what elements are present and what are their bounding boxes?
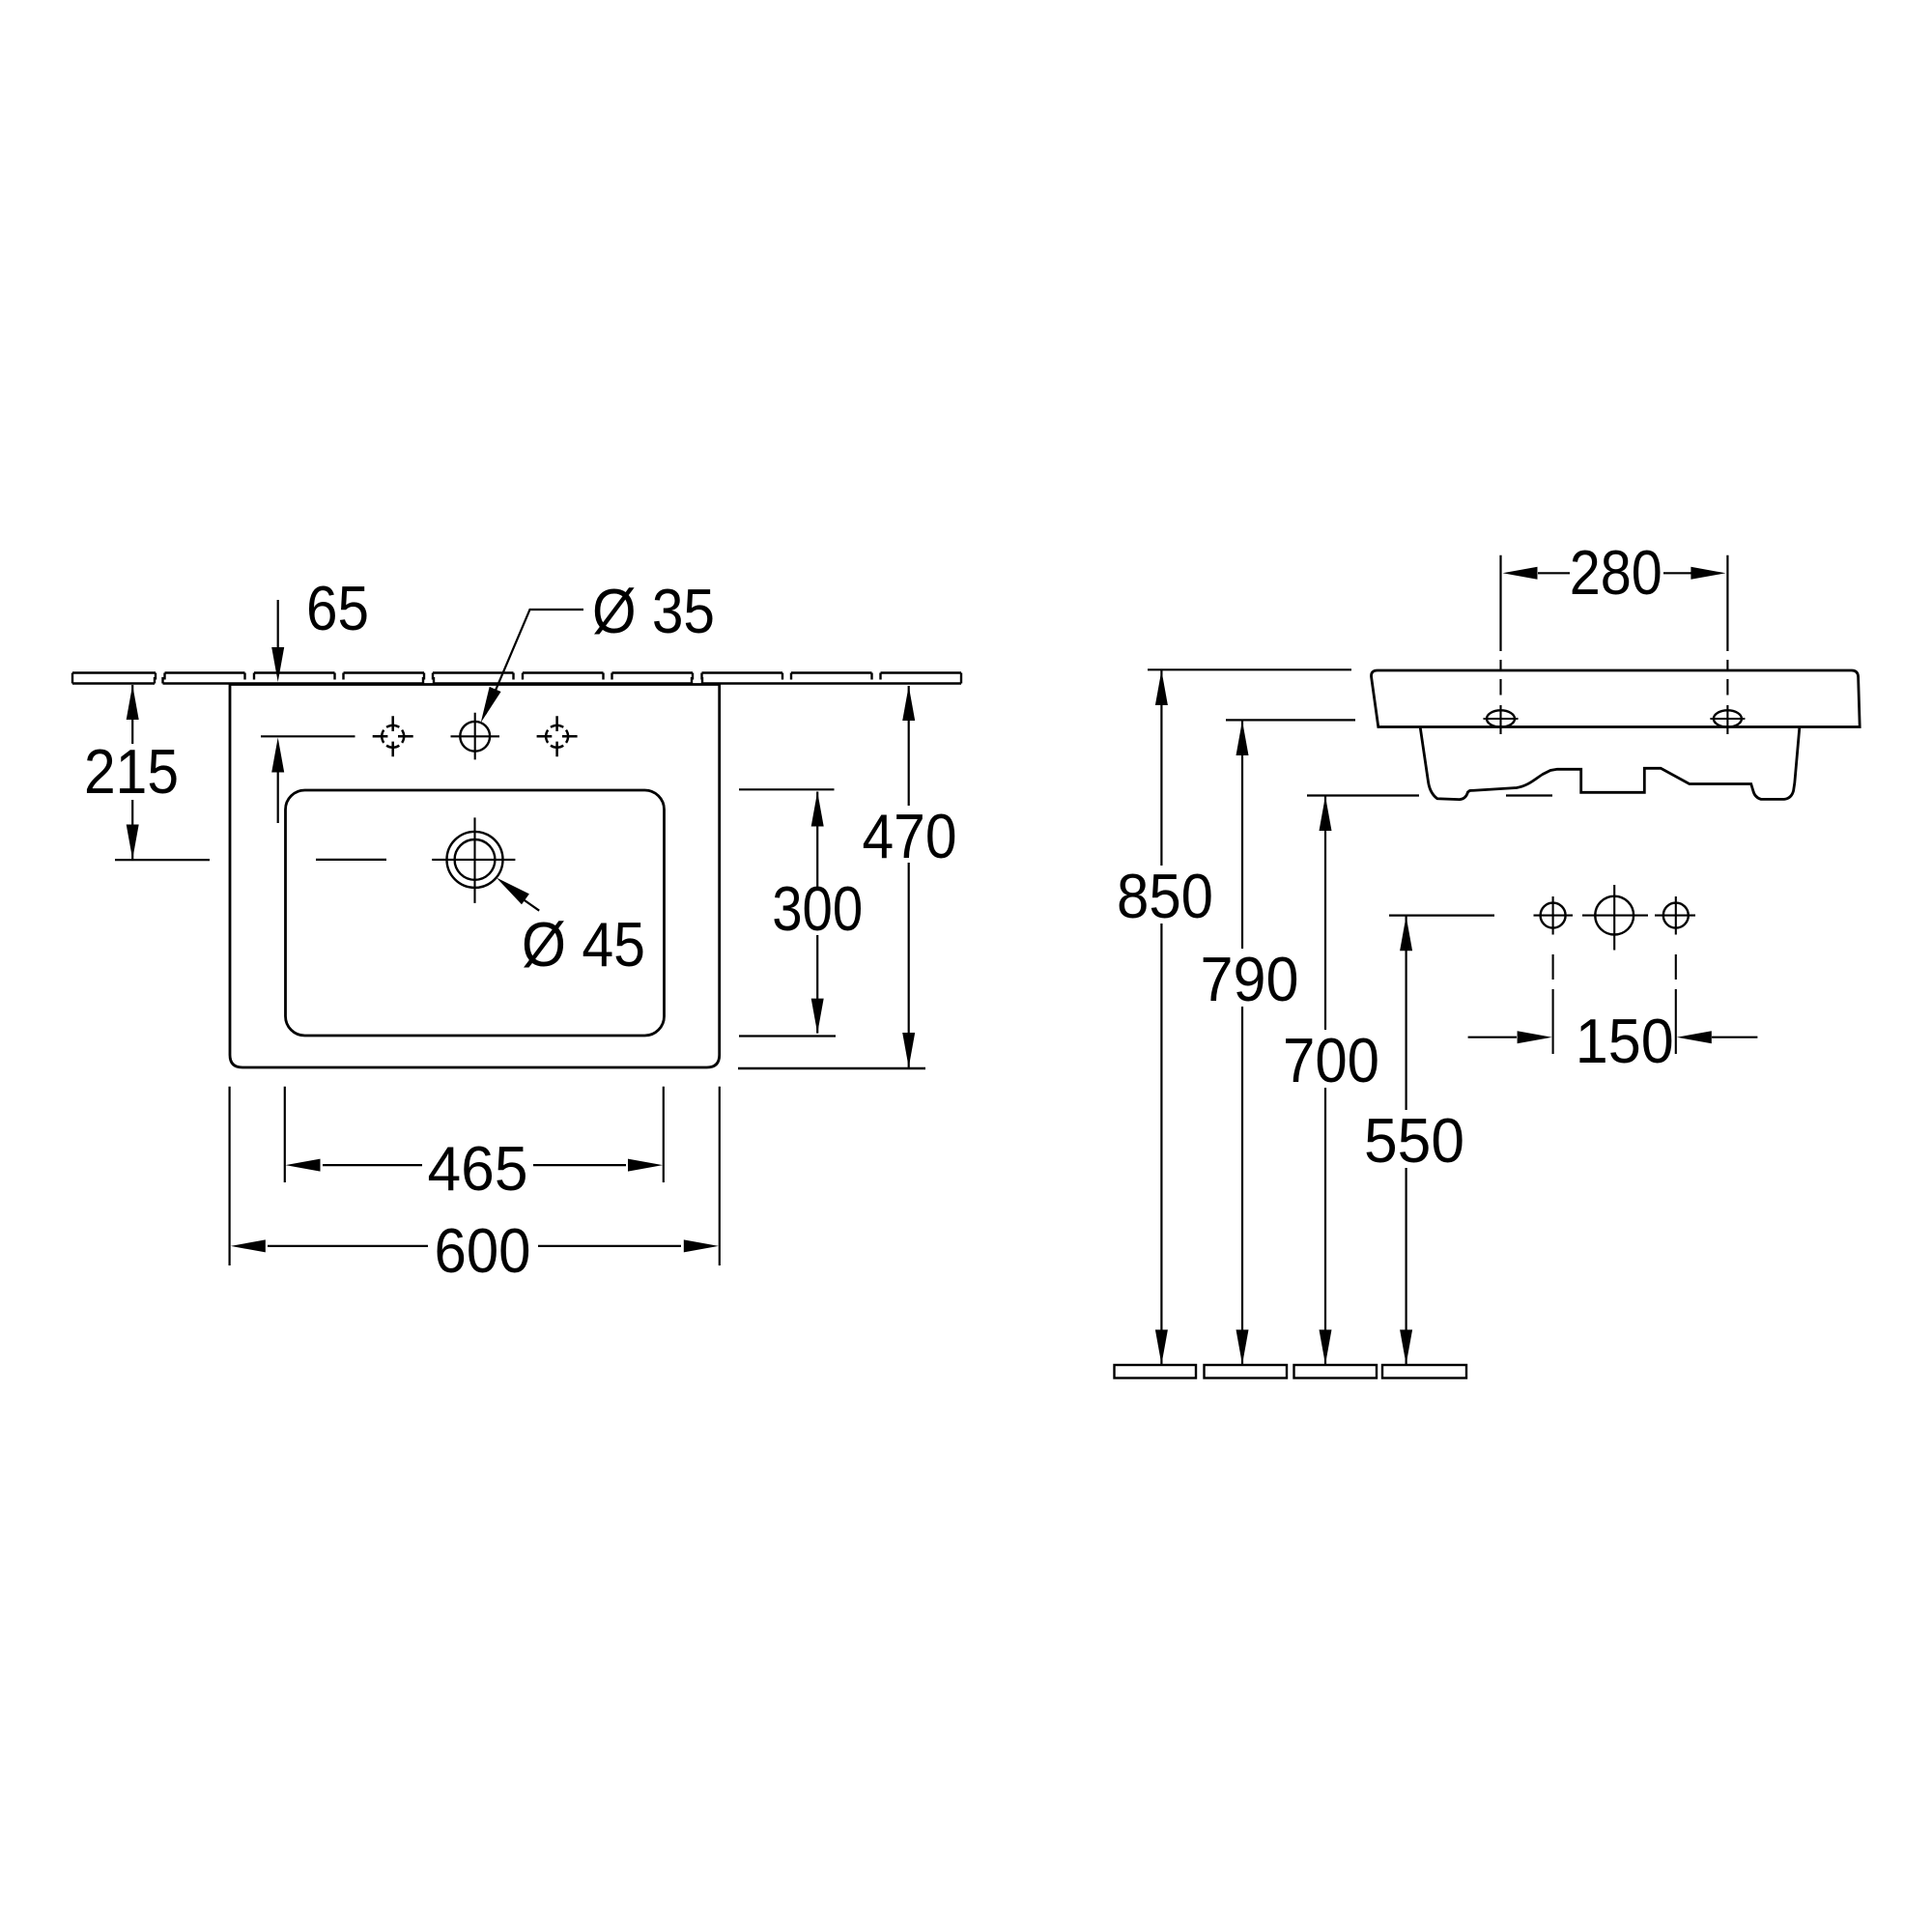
- mounting hole right (ellipse): [1714, 710, 1742, 726]
- drain crosshair: [432, 817, 515, 903]
- wall tile band bottom line (left view): [72, 677, 961, 684]
- optional tap hole right (dashed crosshair): [537, 716, 578, 756]
- svg-text:150: 150: [1576, 1006, 1674, 1076]
- mounting hole right crosshair: [1710, 705, 1745, 734]
- dimension 600 extension lines: [229, 1087, 231, 1265]
- floor tile 3: [1294, 1365, 1378, 1378]
- dimension 600 line: [268, 1245, 428, 1247]
- dimension 300 bottom reference line: [739, 1035, 836, 1037]
- dimension 150 left arrow: [1468, 1037, 1517, 1038]
- mounting hole left (ellipse): [1487, 710, 1515, 726]
- mounting hole left crosshair: [1484, 705, 1519, 734]
- leader line for Ø 35: [486, 610, 583, 714]
- tap hole right crosshair: [1675, 896, 1677, 935]
- washbasin rim, side view: [1372, 670, 1861, 727]
- dimension 850 extension line: [1148, 668, 1351, 670]
- tap hole left crosshair: [1552, 896, 1554, 935]
- dimension 790 line: [1241, 721, 1243, 949]
- dimension 850 line: [1160, 670, 1162, 866]
- mounting hole right centreline dashes: [1726, 660, 1728, 696]
- svg-text:300: 300: [772, 873, 863, 944]
- centre tap hole crosshair: [451, 713, 500, 760]
- dimension 280 extension line left: [1499, 555, 1501, 651]
- svg-text:280: 280: [1570, 537, 1662, 608]
- tap hole centre crosshair vertical: [1613, 885, 1615, 951]
- wall tile band top dashed line (left view): [72, 671, 961, 673]
- dimension 300 line: [816, 792, 818, 889]
- washbasin outer outline, plan view: [230, 685, 720, 1068]
- leader arrowhead Ø 35: [481, 687, 501, 723]
- dimension 150 extension line right (dashed): [1675, 954, 1677, 1054]
- svg-text:550: 550: [1364, 1105, 1464, 1176]
- dimension 470 line: [908, 686, 910, 806]
- dimension 470 bottom extension line: [738, 1067, 925, 1069]
- dimension 790 extension line: [1226, 719, 1355, 721]
- floor tile 1: [1115, 1365, 1197, 1378]
- dimension 280 extension line right: [1726, 555, 1728, 651]
- floor tile 2: [1205, 1365, 1288, 1378]
- dimension 215 line: [131, 685, 133, 744]
- dimension 700 line: [1324, 796, 1326, 1030]
- dimension 465 extension lines: [284, 1087, 286, 1182]
- dimension 150 extension line left (dashed): [1552, 954, 1554, 1054]
- svg-text:790: 790: [1201, 944, 1299, 1014]
- tap hole row reference line: [261, 735, 355, 737]
- dimension 300 top reference line: [739, 788, 835, 790]
- drain centreline dash left: [316, 859, 386, 861]
- drain hole inner circle: [455, 839, 496, 880]
- dimension 550 extension line: [1389, 914, 1494, 916]
- floor tile 4: [1382, 1365, 1466, 1378]
- svg-text:Ø 35: Ø 35: [592, 576, 715, 646]
- dimension 215 reference line: [115, 859, 210, 861]
- tap holes horizontal centreline: [1534, 915, 1696, 917]
- svg-text:850: 850: [1117, 861, 1213, 931]
- washbasin underside profile, side view: [1420, 728, 1800, 800]
- tap hole left, side view: [1541, 903, 1566, 928]
- dimension 700 extension line: [1307, 794, 1552, 796]
- tap hole right, side view: [1663, 903, 1689, 928]
- wall tile band joint ticks (left view): [72, 673, 961, 684]
- dimension 550 line: [1405, 916, 1406, 1110]
- dimension 280 line: [1538, 572, 1570, 574]
- drain hole outer circle Ø45: [447, 832, 503, 888]
- inner basin rounded rectangle, plan view: [286, 790, 665, 1036]
- dimension 465 line: [323, 1164, 422, 1166]
- optional tap hole left (dashed crosshair): [373, 716, 413, 756]
- svg-text:Ø 45: Ø 45: [522, 909, 645, 980]
- dimension 65 lower arrow: [277, 770, 279, 823]
- dimension 65 upper arrow: [277, 600, 279, 649]
- centre tap hole circle Ø35: [460, 722, 490, 752]
- svg-text:470: 470: [863, 801, 957, 871]
- mounting hole left centreline dashes: [1499, 660, 1501, 696]
- dimension 150 right arrow: [1712, 1037, 1757, 1038]
- leader line for Ø 45: [519, 896, 539, 911]
- svg-text:700: 700: [1283, 1025, 1379, 1095]
- svg-text:600: 600: [435, 1215, 531, 1286]
- svg-text:465: 465: [428, 1133, 528, 1204]
- leader arrowhead Ø 45: [497, 878, 529, 905]
- svg-text:65: 65: [306, 573, 369, 643]
- tap hole centre, side view: [1595, 896, 1634, 935]
- svg-text:215: 215: [84, 736, 179, 807]
